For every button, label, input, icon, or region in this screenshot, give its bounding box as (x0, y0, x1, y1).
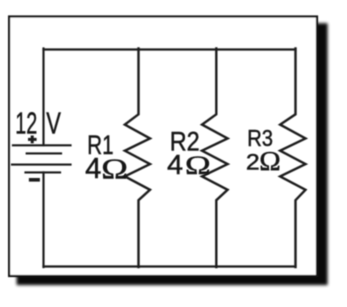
svg-text:12: 12 (15, 108, 37, 141)
battery B1 plate 1 (long, +) (13, 144, 71, 146)
battery B1 plate 3 (long) (12, 164, 71, 166)
resistor R3 (280, 49, 305, 268)
svg-text:2: 2 (246, 150, 260, 174)
card shadow (17, 23, 328, 285)
svg-text:Ω: Ω (101, 154, 128, 186)
wire: bottom bus (44, 265, 296, 267)
wire: top bus (44, 48, 296, 50)
svg-text:4: 4 (167, 149, 183, 180)
svg-text:Ω: Ω (259, 147, 280, 177)
minus terminal mark (29, 178, 40, 182)
wire: battery top lead (42, 49, 44, 146)
resistor R1 (125, 49, 150, 268)
wire: battery bottom lead (42, 173, 44, 268)
battery B1 plate 2 (short) (27, 152, 61, 154)
svg-text:V: V (46, 106, 61, 141)
resistor R2 (202, 49, 228, 268)
svg-text:4: 4 (85, 154, 101, 186)
svg-text:Ω: Ω (185, 151, 211, 180)
card frame (9, 17, 317, 277)
plus terminal mark (28, 136, 37, 144)
battery B1 plate 4 (short, -) (26, 171, 61, 173)
